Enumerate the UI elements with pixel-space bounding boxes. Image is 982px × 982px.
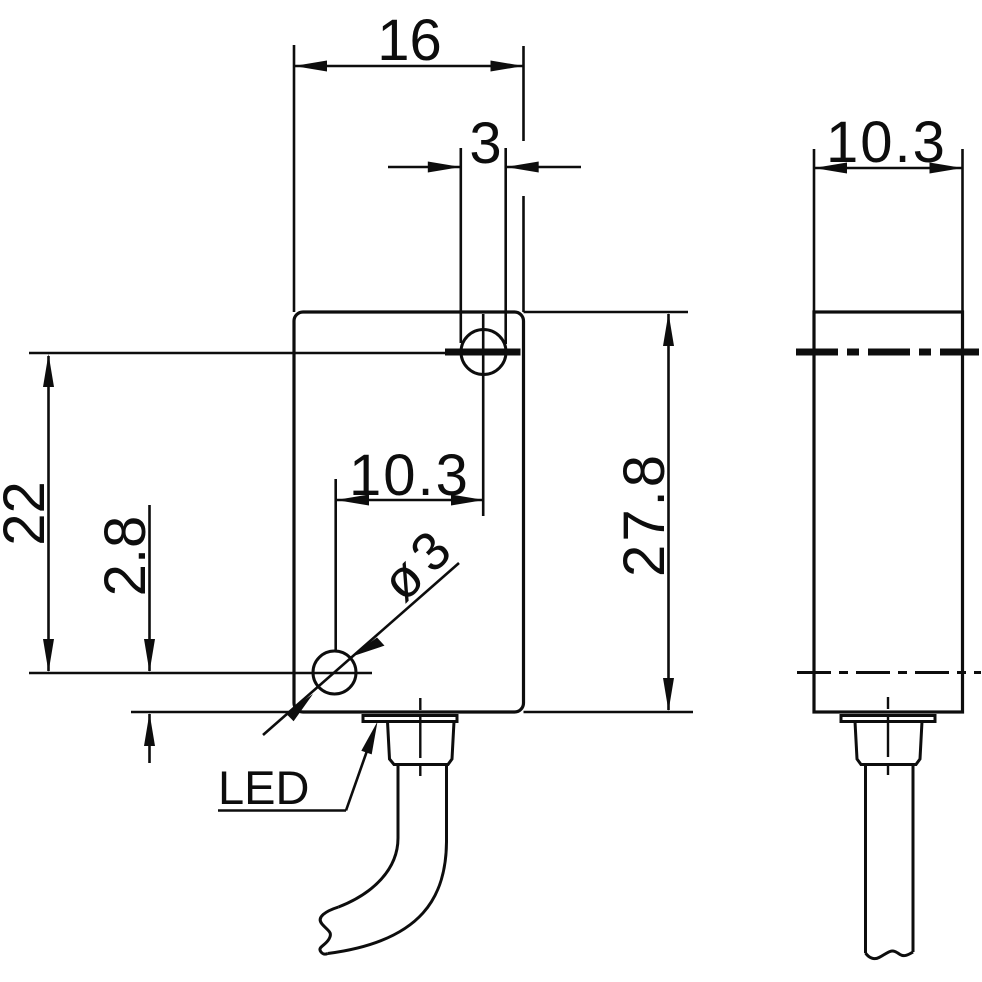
arrowhead 10.3 side right [930, 163, 963, 174]
dimension line 10.3 side [814, 167, 963, 170]
top hole vertical center line [482, 314, 485, 516]
front cable break squiggle [320, 907, 339, 954]
arrowhead 10.3 side left [814, 163, 847, 174]
side sensing face thick dash-dot line [796, 349, 979, 356]
dimension line 2.8 upper segment [148, 505, 151, 671]
arrowhead 10.3 front left [336, 495, 369, 506]
extension of body top to 27.8 [524, 311, 689, 314]
side cable break squiggle [866, 951, 914, 959]
LED leader line [346, 731, 374, 811]
arrowhead dia lower (points to circle lower-left edge) [286, 694, 313, 721]
side gland center line [887, 697, 889, 779]
arrowhead 22 bottom [43, 639, 54, 672]
side extension line left of 10.3 [813, 149, 816, 312]
sensing face thick bar [445, 349, 521, 356]
datum line through top hole (22 top extension) [29, 352, 445, 355]
side lower hole dash-dot center line [797, 671, 981, 674]
dimension line 3 left tail [388, 166, 461, 169]
arrowhead 27.8 bottom [663, 678, 674, 711]
svg-text:22: 22 [0, 481, 57, 546]
LED leader arrowhead [361, 722, 377, 755]
svg-text:27.8: 27.8 [612, 452, 677, 577]
svg-text:LED: LED [218, 761, 309, 814]
front cable gland nut [388, 722, 455, 765]
arrowhead 16 right [491, 61, 524, 72]
svg-text:3: 3 [469, 111, 501, 176]
extension line right of 16 lower segment [522, 196, 525, 312]
svg-text:16: 16 [377, 8, 442, 73]
extension line left of 16 (body left edge extended up) [293, 45, 296, 312]
arrowhead 3 left (points right at line) [428, 162, 461, 173]
front cable right edge [328, 765, 447, 954]
arrowhead dia upper (points to circle upper-right edge) [350, 638, 385, 658]
svg-text:2.8: 2.8 [93, 516, 158, 597]
side extension line right of 10.3 [961, 149, 964, 312]
side cable left edge [864, 765, 867, 954]
front cable gland flange [363, 716, 457, 722]
dimension line 2.8 lower segment [148, 714, 151, 763]
top mounting hole circle [461, 330, 506, 375]
LED underline [218, 809, 346, 812]
arrowhead 2.8 upper (points down) [144, 639, 155, 672]
bottom hole vertical center line [334, 479, 337, 651]
extension line right of 3 [504, 148, 507, 344]
arrowhead 2.8 lower (points up) [144, 713, 155, 746]
dimension line 27.8 [667, 314, 670, 710]
extension of body bottom to 27.8 [524, 711, 694, 714]
side cable gland flange [841, 716, 935, 722]
dimension line 10.3 front [336, 499, 484, 502]
side view body outline [814, 312, 963, 712]
bottom LED hole circle [313, 651, 356, 694]
arrowhead 3 right (points left at line) [506, 162, 539, 173]
arrowhead 27.8 top [663, 313, 674, 346]
side cable right edge [912, 765, 915, 953]
dimension line 3 right tail [506, 166, 581, 169]
extension line left of 3 [459, 148, 462, 343]
front view body outline [294, 312, 524, 712]
diameter leader line through LED hole [263, 563, 459, 735]
front gland center line [419, 698, 421, 779]
dimension line 16 [294, 65, 524, 68]
arrowhead 22 top [43, 354, 54, 387]
bottom extension left of body (2.8 lower reference) [131, 711, 294, 714]
side cable gland nut [855, 722, 922, 765]
extension line right of 16 upper segment [522, 46, 525, 141]
dimension line 22 [47, 356, 50, 671]
arrowhead 16 left [294, 61, 327, 72]
arrowhead 10.3 front right [451, 495, 484, 506]
svg-text:10.3: 10.3 [349, 443, 470, 508]
svg-text:10.3: 10.3 [826, 110, 947, 175]
datum line through bottom hole (22 bottom extension) [29, 672, 372, 675]
front cable left edge [339, 765, 399, 908]
